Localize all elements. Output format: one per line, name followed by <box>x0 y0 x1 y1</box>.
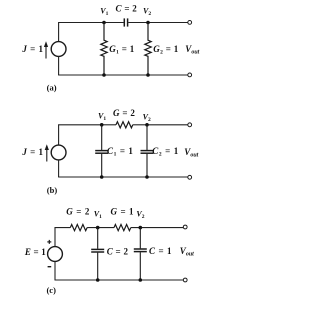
node V1 (a) <box>102 21 106 25</box>
capacitor C = 2 (a) <box>124 18 127 26</box>
svg-text:Vout: Vout <box>185 44 199 56</box>
node V1 (b) <box>100 123 104 127</box>
wire: (b) top-left corner from source up to node V1 <box>59 125 102 146</box>
svg-text:C2 = 1: C2 = 1 <box>152 146 179 158</box>
svg-text:J = 1: J = 1 <box>21 147 43 157</box>
wire: (a) top-left corner from source up to node V1 <box>59 23 104 43</box>
terminal: (c) bottom output (open circle) <box>183 278 187 282</box>
wire: (a) bottom rail <box>58 74 188 76</box>
node V2 (c) <box>139 226 143 230</box>
svg-text:G1 = 1: G1 = 1 <box>109 44 134 56</box>
svg-text:G = 2: G = 2 <box>66 206 90 216</box>
wire: (b) source bottom to bottom rail <box>58 160 60 177</box>
wire: (c) resistor G=1 to output terminal through V2 <box>131 227 184 229</box>
svg-text:V1: V1 <box>94 209 102 220</box>
arrow of current source J (b) <box>45 144 49 161</box>
svg-text:(c): (c) <box>46 285 56 295</box>
resistor G2 (a) <box>145 23 151 76</box>
wire: (a) source bottom to bottom rail <box>58 56 60 75</box>
svg-text:C = 2: C = 2 <box>107 247 129 257</box>
wire: (c) bottom rail <box>55 279 184 281</box>
svg-text:V1: V1 <box>100 6 108 17</box>
terminal: (a) bottom output (open circle) <box>188 73 192 77</box>
terminal: (b) bottom output (open circle) <box>188 175 192 179</box>
svg-text:G = 1: G = 1 <box>111 206 135 216</box>
wire: (b) V1 to resistor G <box>102 124 116 126</box>
capacitor C = 1 (c) <box>134 228 147 280</box>
wire: (c) resistor G=2 to resistor G=1 through V1 <box>87 227 114 229</box>
current source J (a) <box>51 42 66 57</box>
node: (a) bottom junction of G2 <box>146 73 150 77</box>
svg-text:G2 = 1: G2 = 1 <box>153 44 178 56</box>
node V2 (a) <box>146 21 150 25</box>
wire: (a) capacitor to V2 <box>128 22 148 24</box>
capacitor C2 (b) <box>141 125 154 177</box>
node: (a) bottom junction of G1 <box>102 73 106 77</box>
arrow of current source J (a) <box>44 41 48 58</box>
node: (c) bottom junction of C=2 <box>96 278 100 282</box>
node: (b) bottom junction of C2 <box>145 175 149 179</box>
svg-text:E = 1: E = 1 <box>24 247 46 257</box>
capacitor C1 (b) <box>95 125 108 177</box>
svg-text:V1: V1 <box>98 111 106 122</box>
svg-text:V2: V2 <box>136 209 144 220</box>
capacitor C = 2 (c) <box>91 228 104 280</box>
wire: (c) top-left corner from source up to resistor <box>55 228 70 247</box>
terminal: (a) top output (open circle) <box>188 21 192 25</box>
wire: (b) resistor G to V2 <box>133 124 147 126</box>
node: (b) bottom junction of C1 <box>100 175 104 179</box>
node: (c) bottom junction of C=1 <box>139 278 143 282</box>
terminal: (c) top output (open circle) <box>183 225 187 229</box>
svg-text:V2: V2 <box>143 113 151 124</box>
resistor G = 1 (c) <box>114 225 131 231</box>
terminal: (b) top output (open circle) <box>188 123 192 127</box>
resistor G = 2 (b) <box>116 122 133 128</box>
svg-text:C = 1: C = 1 <box>149 246 172 256</box>
label + of source E (c) <box>47 240 51 244</box>
svg-text:G = 2: G = 2 <box>113 108 135 118</box>
voltage source E (c) <box>48 247 63 262</box>
wire: (a) V2 to output terminal <box>148 22 188 24</box>
wire: (b) bottom rail <box>58 176 188 178</box>
label minus of source E (c) <box>48 266 52 268</box>
svg-text:C = 2: C = 2 <box>115 4 137 14</box>
svg-text:C1 = 1: C1 = 1 <box>107 146 134 158</box>
svg-text:Vout: Vout <box>180 246 194 258</box>
resistor G1 (a) <box>101 23 107 76</box>
node V2 (b) <box>145 123 149 127</box>
svg-text:Vout: Vout <box>184 147 198 159</box>
svg-text:V2: V2 <box>143 6 151 17</box>
svg-text:(b): (b) <box>47 185 58 195</box>
current source J (b) <box>51 145 66 160</box>
wire: (b) V2 to output terminal <box>147 124 188 126</box>
svg-text:(a): (a) <box>47 83 57 93</box>
svg-text:J = 1: J = 1 <box>21 44 43 54</box>
node V1 (c) <box>96 226 100 230</box>
resistor G = 2 (c) <box>70 225 87 231</box>
wire: (c) source bottom to bottom rail <box>54 261 56 280</box>
wire: (a) top rail V1 to capacitor <box>104 22 124 24</box>
